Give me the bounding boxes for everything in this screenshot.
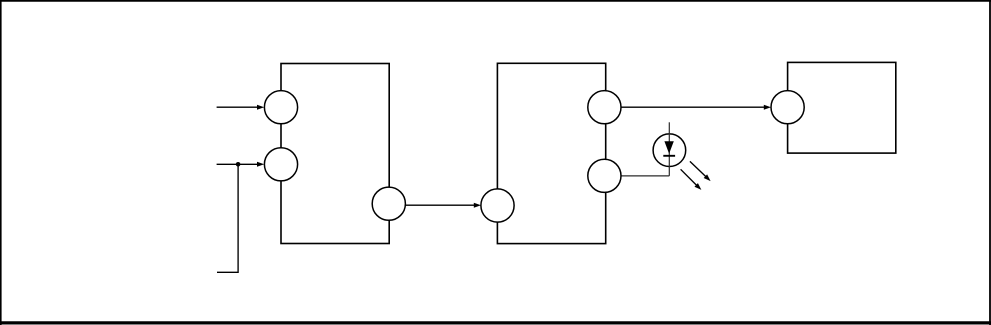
LED light arrow 2	[681, 169, 702, 190]
wire U2 output to U3 input	[621, 105, 771, 110]
wire U1 output to U2 input	[405, 203, 481, 208]
port P7 on U3 left	[771, 91, 804, 124]
port P2 on U1 left	[264, 148, 297, 181]
wire input 2	[217, 162, 265, 167]
frame left edge	[0, 0, 2, 325]
junction dot	[236, 162, 241, 167]
block U2	[497, 63, 605, 243]
frame right edge	[989, 0, 991, 325]
port P3 on U1 right	[372, 187, 405, 220]
LED D1 anode triangle	[664, 141, 673, 154]
frame bottom edge	[0, 321, 991, 324]
wire U2 lower output to LED	[621, 175, 669, 177]
port P5 on U2 right	[588, 91, 621, 124]
wire input 1	[217, 105, 265, 110]
port P6 on U2 right	[588, 159, 621, 192]
LED D1 cathode bar	[663, 155, 675, 157]
LED D1 lead	[668, 122, 670, 176]
port P1 on U1 left	[264, 91, 297, 124]
wire branch down-left stub	[217, 164, 238, 272]
block U1	[281, 64, 389, 244]
frame top edge	[0, 0, 991, 2]
port P4 on U2 left	[481, 189, 514, 222]
LED D1 body	[653, 134, 686, 167]
block U3	[788, 62, 896, 153]
LED light arrow 1	[690, 161, 711, 181]
